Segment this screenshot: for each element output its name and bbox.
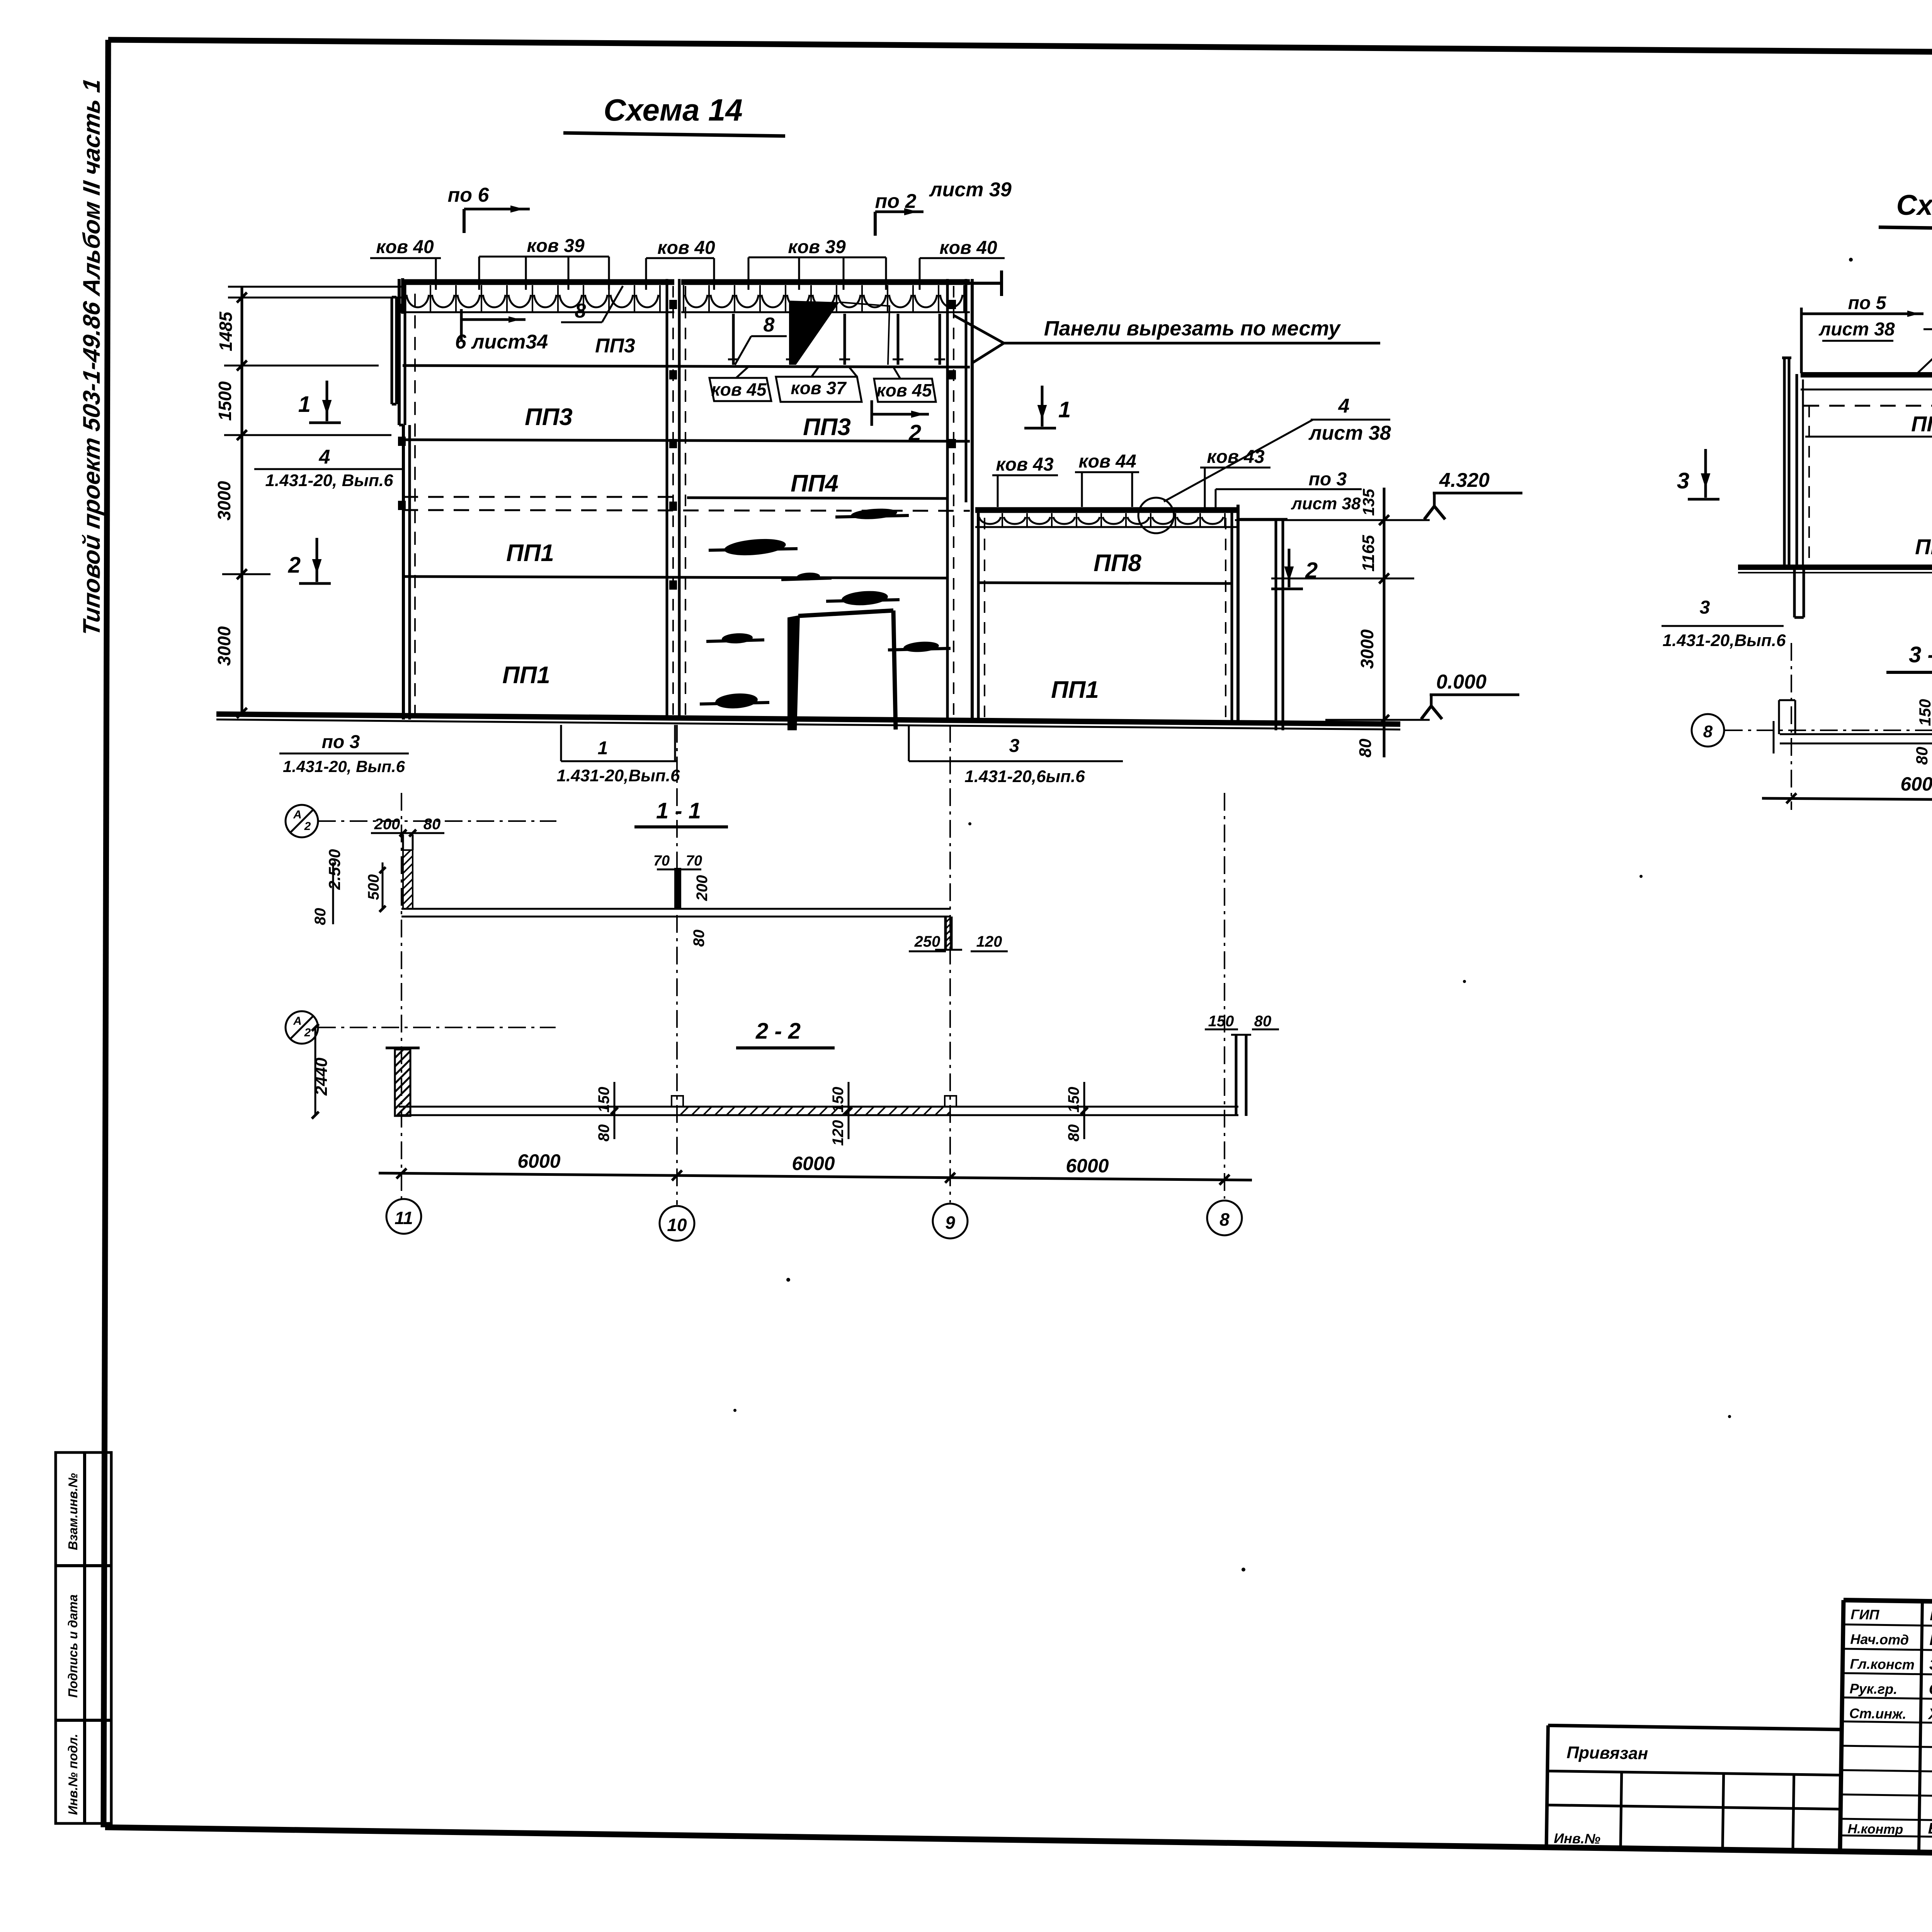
right dimension line bbox=[1383, 488, 1386, 757]
svg-text:ПП1: ПП1 bbox=[506, 540, 554, 566]
schema 15 course line bbox=[1805, 436, 1932, 438]
axis line section 2-2 bbox=[318, 1027, 556, 1028]
svg-text:1.431-20, Вып.6: 1.431-20, Вып.6 bbox=[283, 757, 405, 776]
svg-text:ГИП: ГИП bbox=[1850, 1606, 1880, 1622]
svg-text:Схема 15: Схема 15 bbox=[1896, 189, 1932, 221]
svg-text:Панели вырезать по месту: Панели вырезать по месту bbox=[1044, 317, 1341, 340]
svg-text:150: 150 bbox=[595, 1087, 612, 1113]
svg-text:2: 2 bbox=[288, 553, 301, 578]
schema 15 left edge bbox=[1783, 358, 1786, 566]
corrugated band of ПП8 bay bbox=[975, 507, 1236, 513]
svg-text:120: 120 bbox=[830, 1120, 847, 1146]
svg-text:8: 8 bbox=[575, 300, 586, 322]
svg-text:А: А bbox=[293, 808, 302, 821]
left jamb dashed joint bbox=[414, 294, 416, 715]
grid bubble 8 bbox=[1207, 1201, 1242, 1235]
svg-text:Оруджева: Оруджева bbox=[1929, 1681, 1932, 1699]
svg-text:ПП8: ПП8 bbox=[1094, 550, 1141, 577]
svg-text:ПП3: ПП3 bbox=[525, 404, 573, 430]
svg-text:Зильбертов: Зильбертов bbox=[1929, 1656, 1932, 1675]
svg-text:лист 39: лист 39 bbox=[929, 179, 1012, 201]
svg-text:1485: 1485 bbox=[216, 311, 236, 351]
callout 6 лист34 bbox=[460, 309, 463, 340]
grid bubble А/2 (section 2-2) bbox=[286, 1011, 318, 1044]
dims 200 80 500 2.590 80 (section 1-1 left) bbox=[371, 832, 444, 834]
section mark 2 (middle, horizontal) bbox=[871, 400, 873, 426]
section mark 1 (left) bbox=[326, 381, 328, 421]
svg-text:1.431-20,6ып.6: 1.431-20,6ып.6 bbox=[964, 767, 1085, 786]
svg-text:6000: 6000 bbox=[517, 1150, 560, 1172]
svg-text:80: 80 bbox=[1356, 738, 1375, 757]
axis line section 3-3 bbox=[1725, 730, 1932, 731]
right wall return (section 1-1) bbox=[944, 917, 947, 950]
svg-text:0.000: 0.000 bbox=[1436, 671, 1486, 693]
svg-text:3: 3 bbox=[1677, 468, 1689, 493]
svg-text:Гл.конст: Гл.конст bbox=[1850, 1656, 1915, 1672]
svg-text:2: 2 bbox=[304, 820, 311, 833]
svg-text:Хвостова: Хвостова bbox=[1928, 1706, 1932, 1724]
svg-text:120: 120 bbox=[976, 933, 1002, 950]
tag ков 45 (left) bbox=[709, 378, 771, 401]
svg-text:по 2: по 2 bbox=[875, 190, 917, 213]
svg-text:ков 40: ков 40 bbox=[376, 237, 434, 257]
svg-text:9: 9 bbox=[945, 1213, 955, 1233]
section mark 2 (far left) bbox=[316, 538, 318, 582]
section 3-3 wall bbox=[1780, 733, 1932, 735]
sheet border frame left bbox=[104, 40, 108, 1827]
band top line extension and end tick bbox=[970, 282, 1002, 285]
svg-text:150: 150 bbox=[1065, 1087, 1082, 1113]
svg-text:ПП3: ПП3 bbox=[595, 335, 635, 357]
title block bbox=[1546, 1596, 1932, 1895]
svg-text:6 лист34: 6 лист34 bbox=[455, 331, 548, 353]
svg-text:4: 4 bbox=[1338, 395, 1350, 417]
course line bottom of ПП4 row (solid, middle bay) bbox=[687, 498, 947, 498]
svg-text:200: 200 bbox=[374, 816, 400, 833]
svg-text:3: 3 bbox=[1009, 736, 1020, 756]
svg-text:1165: 1165 bbox=[1359, 535, 1378, 571]
column blocks on wall bbox=[672, 1096, 683, 1107]
svg-text:150: 150 bbox=[830, 1087, 847, 1113]
svg-text:4: 4 bbox=[319, 446, 330, 468]
svg-text:Рук.гр.: Рук.гр. bbox=[1850, 1680, 1898, 1697]
svg-text:150: 150 bbox=[1208, 1013, 1234, 1030]
svg-text:по 6: по 6 bbox=[448, 184, 490, 206]
svg-text:ков 43: ков 43 bbox=[996, 454, 1054, 475]
joint at grid 9, right edge of tall part bbox=[946, 279, 949, 719]
svg-text:Ст.инж.: Ст.инж. bbox=[1849, 1705, 1906, 1722]
section 3-3 left end bbox=[1778, 700, 1780, 734]
wall dims section 2-2 bbox=[614, 1082, 616, 1139]
svg-text:1: 1 bbox=[298, 392, 311, 417]
schema 15 dashed course bbox=[1804, 405, 1932, 407]
svg-text:8: 8 bbox=[1703, 722, 1713, 741]
svg-text:3000: 3000 bbox=[1357, 629, 1377, 669]
grid bubble А/2 (section 1-1) bbox=[286, 805, 318, 837]
svg-text:500: 500 bbox=[365, 874, 382, 900]
left pier section 2-2 bbox=[395, 1049, 410, 1116]
svg-text:80: 80 bbox=[312, 908, 329, 925]
svg-text:70: 70 bbox=[686, 853, 702, 869]
svg-text:200: 200 bbox=[694, 875, 711, 901]
svg-text:250: 250 bbox=[914, 933, 940, 950]
svg-text:8: 8 bbox=[764, 314, 775, 336]
wall section 2-2 bbox=[399, 1106, 1238, 1108]
svg-text:1: 1 bbox=[598, 738, 608, 759]
svg-text:Взам.инв.№: Взам.инв.№ bbox=[66, 1473, 80, 1550]
right end post section 2-2 bbox=[1235, 1035, 1238, 1116]
dimension line 6000 / 2440 (schema 15) bbox=[1762, 798, 1932, 801]
left margin vertical text: project designation bbox=[78, 77, 105, 638]
svg-text:Типовой проект 503-1-49.86: Типовой проект 503-1-49.86 Альбом II час… bbox=[78, 77, 105, 638]
svg-text:1.431-20, Вып.6: 1.431-20, Вып.6 bbox=[265, 471, 393, 490]
svg-text:ПП1: ПП1 bbox=[502, 662, 550, 689]
jamb connector blocks bbox=[398, 304, 406, 313]
axis line section 1-1 bbox=[318, 820, 556, 822]
svg-text:1: 1 bbox=[1058, 397, 1071, 422]
top row mullions bbox=[732, 314, 735, 365]
svg-text:6000: 6000 bbox=[792, 1153, 835, 1174]
dimension line 6000+6000+6000 bbox=[379, 1173, 1252, 1180]
svg-text:2 - 2: 2 - 2 bbox=[755, 1019, 801, 1044]
svg-text:1 - 1: 1 - 1 bbox=[656, 798, 701, 823]
svg-text:135: 135 bbox=[1359, 488, 1378, 516]
paper specks bbox=[1849, 258, 1853, 262]
schema 15 top band bbox=[1801, 372, 1932, 378]
dashed course lines bbox=[403, 496, 674, 498]
svg-text:2: 2 bbox=[908, 420, 921, 446]
svg-text:1500: 1500 bbox=[215, 381, 235, 421]
schema 15 left column below base bbox=[1793, 566, 1796, 617]
svg-text:11: 11 bbox=[395, 1208, 413, 1228]
svg-text:Н.контр: Н.контр bbox=[1847, 1821, 1903, 1837]
corrugated band, bay 11-10 bbox=[403, 279, 674, 285]
left jamb post bbox=[391, 297, 393, 404]
grid axis 10 bbox=[676, 725, 678, 1205]
ref 1 / 1.431-20,Вып.6 (middle) bbox=[560, 725, 562, 761]
joint at grid 10 bbox=[666, 279, 668, 719]
svg-text:лист 38: лист 38 bbox=[1291, 494, 1361, 513]
svg-text:ков 40: ков 40 bbox=[657, 238, 715, 258]
section 1-1 wall plan bbox=[401, 908, 950, 910]
svg-text:80: 80 bbox=[595, 1124, 612, 1142]
svg-text:70: 70 bbox=[653, 853, 670, 869]
ПП8 course line bbox=[978, 583, 1232, 583]
svg-text:10: 10 bbox=[667, 1215, 687, 1235]
svg-text:1.431-20,Вып.6: 1.431-20,Вып.6 bbox=[557, 766, 680, 785]
svg-text:лист 38: лист 38 bbox=[1308, 422, 1391, 444]
svg-text:6000: 6000 bbox=[1066, 1155, 1109, 1177]
course line bottom of ПП3 row bbox=[403, 440, 970, 441]
svg-text:Привязан: Привязан bbox=[1566, 1743, 1648, 1763]
svg-text:ПП1: ПП1 bbox=[1051, 677, 1099, 703]
grid bubble 9 bbox=[933, 1204, 968, 1238]
grid bubble 10 bbox=[660, 1206, 694, 1241]
right jamb strip bbox=[1240, 518, 1287, 521]
svg-text:ков 45: ков 45 bbox=[711, 379, 767, 400]
left jamb column bbox=[398, 279, 401, 425]
svg-text:1.431-20,Вып.6: 1.431-20,Вып.6 bbox=[1663, 631, 1786, 650]
svg-text:Подпись и дата: Подпись и дата bbox=[66, 1594, 80, 1698]
svg-text:80: 80 bbox=[690, 930, 707, 947]
ref 3 / 1.431-20,6ып.6 (right) bbox=[908, 725, 910, 761]
svg-text:Инв.№ подл.: Инв.№ подл. bbox=[66, 1734, 80, 1815]
svg-text:150: 150 bbox=[1916, 699, 1932, 726]
grid bubble 8 (section 3-3) bbox=[1692, 714, 1724, 747]
svg-text:ПП3: ПП3 bbox=[803, 414, 851, 440]
sheet border frame bottom bbox=[105, 1827, 1932, 1863]
tag ков 37 bbox=[776, 377, 862, 402]
svg-text:3000: 3000 bbox=[214, 481, 234, 520]
svg-text:Нач.отд: Нач.отд bbox=[1850, 1631, 1909, 1648]
svg-text:по 5: по 5 bbox=[1848, 293, 1887, 313]
course line bottom of top row bbox=[403, 366, 970, 367]
grid axis 11 bbox=[401, 793, 402, 1199]
svg-text:3 - 3: 3 - 3 bbox=[1909, 642, 1932, 667]
svg-text:Есина: Есина bbox=[1928, 1820, 1932, 1838]
svg-text:по 3: по 3 bbox=[1309, 469, 1347, 490]
svg-text:Инв.№: Инв.№ bbox=[1554, 1830, 1600, 1847]
svg-text:6000: 6000 bbox=[1900, 773, 1932, 795]
grid axis vertical (schema15 left) bbox=[1791, 643, 1792, 810]
svg-text:3000: 3000 bbox=[214, 626, 234, 666]
sheet border frame top bbox=[108, 40, 1932, 57]
по 3 / лист 38 leader at right bbox=[1215, 489, 1217, 510]
section mark 1 (right) bbox=[1041, 386, 1044, 427]
left attachment table bbox=[1548, 1725, 1842, 1730]
svg-text:лист 38: лист 38 bbox=[1818, 319, 1895, 340]
svg-text:80: 80 bbox=[1254, 1013, 1272, 1030]
door opening bbox=[787, 615, 800, 730]
svg-text:ков 43: ков 43 bbox=[1207, 447, 1265, 467]
svg-text:2: 2 bbox=[304, 1026, 311, 1039]
svg-text:80: 80 bbox=[1913, 747, 1931, 765]
svg-text:ков 39: ков 39 bbox=[788, 237, 846, 257]
left dimension line bbox=[241, 287, 243, 716]
svg-text:ков 37: ков 37 bbox=[791, 378, 847, 398]
section mark 2 (far right) bbox=[1288, 549, 1291, 587]
ink smudges bbox=[850, 507, 898, 520]
svg-text:ков 40: ков 40 bbox=[939, 238, 997, 258]
dark opening wedge bbox=[789, 301, 839, 365]
svg-text:80: 80 bbox=[423, 816, 441, 833]
svg-text:8: 8 bbox=[1219, 1209, 1230, 1230]
grid bubble 11 bbox=[386, 1199, 421, 1234]
ПП8 bay outline bbox=[971, 505, 974, 722]
svg-text:ПП4: ПП4 bbox=[791, 470, 838, 497]
section mark 3 (left) bbox=[1704, 449, 1707, 498]
course line between ПП1 rows bbox=[403, 577, 947, 578]
corrugated band, bay 10-9 bbox=[681, 279, 970, 285]
left pier section 1-1 bbox=[403, 850, 413, 909]
schema 15 base line bbox=[1738, 565, 1932, 570]
svg-text:2440: 2440 bbox=[312, 1058, 331, 1096]
svg-text:А: А bbox=[293, 1015, 302, 1027]
svg-text:Катков: Катков bbox=[1929, 1631, 1932, 1649]
svg-text:3: 3 bbox=[1700, 597, 1710, 618]
elevation ground line bbox=[216, 714, 1400, 724]
svg-text:80: 80 bbox=[1065, 1124, 1082, 1142]
svg-text:Юрин: Юрин bbox=[1930, 1607, 1932, 1624]
svg-text:ПП1: ПП1 bbox=[1915, 534, 1932, 559]
svg-text:ков 45: ков 45 bbox=[876, 380, 932, 400]
svg-text:Схема 14: Схема 14 bbox=[604, 93, 743, 127]
svg-text:ков 44: ков 44 bbox=[1078, 451, 1136, 472]
svg-text:ков 39: ков 39 bbox=[527, 236, 585, 256]
left margin stamp boxes bbox=[56, 1452, 111, 1823]
dim 2440 (section 2-2) bbox=[315, 1027, 316, 1116]
grid axis 9 bbox=[949, 725, 951, 1202]
grid axis 8 bbox=[1224, 793, 1225, 1199]
svg-text:по 3: по 3 bbox=[322, 732, 360, 752]
tag ков 45 (right) bbox=[874, 379, 936, 402]
svg-text:2.590: 2.590 bbox=[325, 849, 344, 890]
svg-text:ПП4: ПП4 bbox=[1911, 412, 1932, 436]
mid pier at grid 10 (section 1-1) bbox=[674, 868, 681, 909]
svg-text:4.320: 4.320 bbox=[1439, 469, 1490, 492]
